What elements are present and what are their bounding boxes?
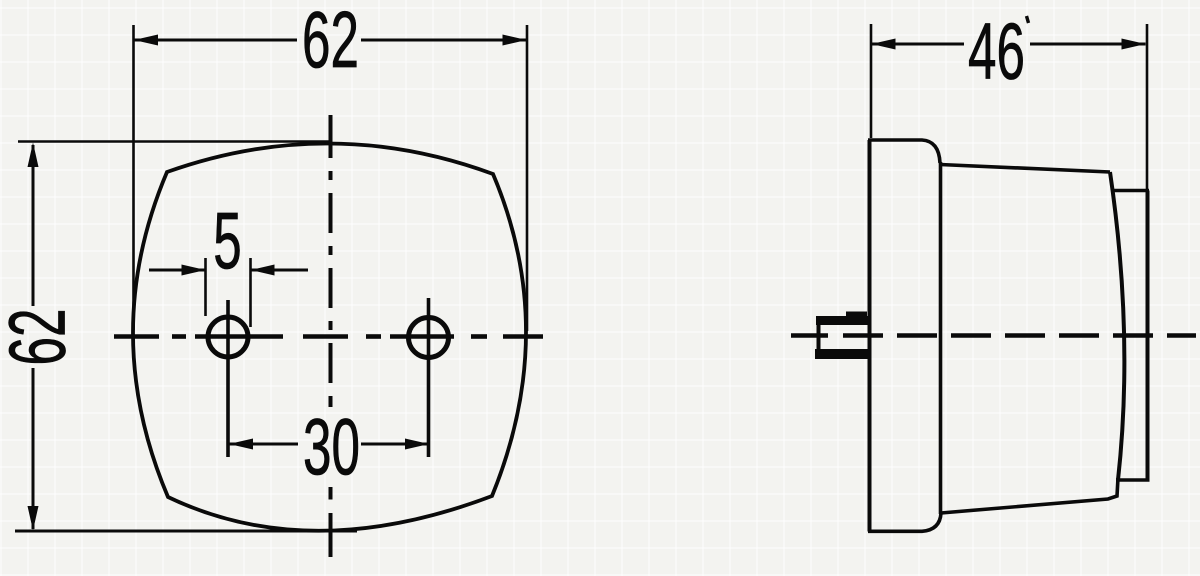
bottom extension line (62 vertical dim, lower)	[15, 530, 357, 533]
dimension line 30	[229, 439, 429, 450]
side view lens curve	[1110, 172, 1124, 480]
side view flange (back plate)	[868, 140, 872, 532]
plug left edge	[817, 318, 821, 356]
side view inner vertical (neck/body joint)	[939, 162, 943, 514]
extension line left (62 top dim)	[132, 25, 135, 330]
svg-text:62: 62	[302, 0, 359, 85]
top extension line (62 vertical dim, upper)	[18, 140, 330, 143]
svg-text:30: 30	[303, 403, 360, 492]
side view rim front vertical	[1146, 191, 1150, 481]
side view horizontal centerline (dashed)	[791, 333, 1196, 338]
hole left (circle)	[208, 317, 248, 357]
front view horizontal centerline (dashed)	[114, 334, 543, 339]
side view bottom plateau and corner	[868, 513, 941, 531]
extension line right (62 top dim)	[526, 25, 529, 331]
front view vertical centerline (dash-dot)	[329, 115, 333, 557]
svg-text:5: 5	[213, 197, 241, 286]
dimension line 5 with outside arrows	[149, 265, 308, 276]
dimension line 46	[872, 39, 1146, 50]
front view outline	[133, 143, 526, 530]
extension line left (46 dim)	[870, 24, 873, 138]
tick mark after 46	[1027, 16, 1029, 23]
plug (cable entry) top bar	[816, 316, 870, 325]
side view rim bottom	[1116, 478, 1150, 482]
dimension 5 extension lines	[204, 258, 207, 316]
hole left crosshair vertical	[226, 300, 230, 457]
plug bottom bar	[815, 349, 868, 359]
plug step	[846, 312, 867, 318]
extension line right (46 dim)	[1146, 24, 1149, 189]
side view lens bottom step and bottom edge	[941, 478, 1118, 513]
side view rim top	[1113, 189, 1149, 193]
side view lens top edge	[940, 165, 1110, 173]
svg-text:46: 46	[968, 7, 1025, 96]
horizontal dimension line 62 (top)	[134, 35, 527, 46]
vertical dimension line 62 (left)	[28, 143, 39, 531]
hole right crosshair vertical	[427, 298, 431, 457]
svg-text:62: 62	[0, 309, 82, 366]
side view top plateau and corner	[868, 140, 940, 163]
hole right (circle)	[409, 318, 449, 358]
